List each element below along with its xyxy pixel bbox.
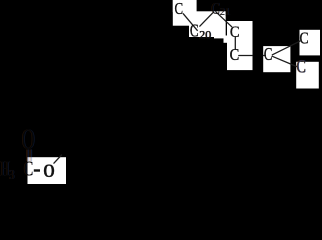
svg-text:O: O bbox=[22, 125, 35, 156]
svg-text:C: C bbox=[175, 1, 184, 19]
svg-text:C: C bbox=[264, 45, 273, 64]
svg-text:O: O bbox=[43, 160, 55, 181]
svg-text:C: C bbox=[297, 56, 306, 77]
svg-text:20: 20 bbox=[199, 28, 211, 42]
svg-text:3: 3 bbox=[9, 167, 15, 182]
svg-text:C: C bbox=[211, 1, 219, 19]
svg-text:C: C bbox=[300, 29, 309, 48]
svg-text:21: 21 bbox=[220, 7, 231, 18]
svg-text:C: C bbox=[230, 46, 240, 64]
svg-text:C: C bbox=[230, 23, 240, 41]
svg-text:C: C bbox=[24, 157, 33, 181]
svg-text:C: C bbox=[190, 22, 199, 41]
